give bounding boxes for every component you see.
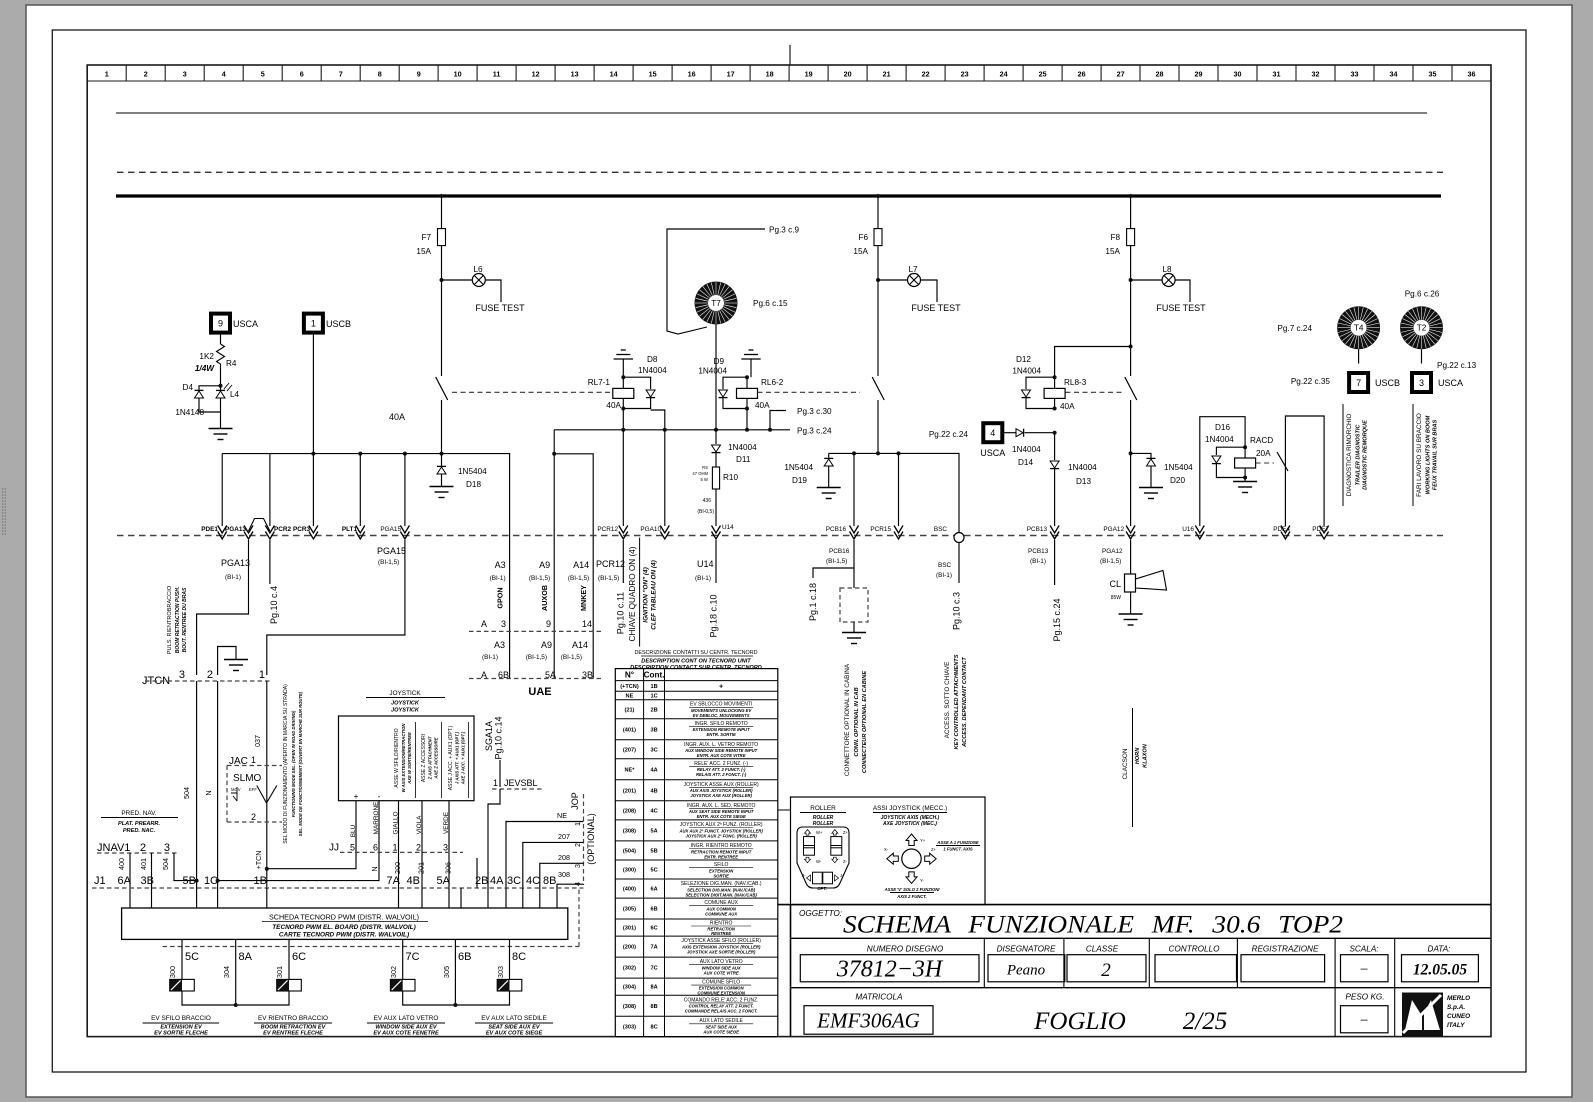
node rail-PGA15	[403, 452, 407, 456]
junction arrow	[850, 526, 859, 540]
wire switch to rail	[441, 400, 443, 454]
svg-text:EV AUX COTE SIEGE: EV AUX COTE SIEGE	[486, 1031, 543, 1037]
svg-text:4B: 4B	[650, 788, 657, 794]
svg-text:ENTR. RENTREE: ENTR. RENTREE	[704, 854, 738, 859]
svg-text:201: 201	[417, 862, 426, 874]
wire PGA10 drop	[664, 430, 666, 526]
svg-text:MNKEY: MNKEY	[579, 585, 588, 611]
svg-text:UAE: UAE	[528, 686, 551, 698]
svg-text:J+: J+	[840, 873, 845, 878]
svg-text:5B: 5B	[650, 848, 657, 854]
svg-text:(200): (200)	[623, 945, 636, 951]
svg-text:303: 303	[496, 966, 505, 978]
lamp L6	[442, 279, 473, 281]
svg-text:EV RIENTRO BRACCIO: EV RIENTRO BRACCIO	[258, 1015, 328, 1022]
node rail-USCB	[311, 452, 315, 456]
svg-text:2B: 2B	[475, 875, 488, 887]
svg-text:3C: 3C	[507, 875, 521, 887]
svg-text:3: 3	[183, 70, 187, 79]
svg-text:PGA12: PGA12	[1103, 526, 1124, 533]
svg-text:2: 2	[251, 812, 256, 822]
svg-text:(401): (401)	[623, 727, 636, 733]
svg-text:RL6-2: RL6-2	[761, 378, 784, 387]
svg-text:MARRONE: MARRONE	[373, 802, 380, 835]
svg-text:8A: 8A	[650, 985, 657, 991]
svg-text:DIAGNOSTIC REMORQUE: DIAGNOSTIC REMORQUE	[1363, 420, 1369, 490]
svg-text:1: 1	[105, 70, 109, 79]
svg-text:RELAIS ATT. 2 FONCT. (-): RELAIS ATT. 2 FONCT. (-)	[696, 772, 747, 777]
svg-text:5C: 5C	[185, 951, 199, 963]
svg-text:(+TCN): (+TCN)	[620, 684, 639, 690]
svg-text:SCHEDA TECNORD PWM (DISTR. WAL: SCHEDA TECNORD PWM (DISTR. WALVOIL)	[269, 913, 419, 922]
svg-text:SORTIE: SORTIE	[713, 873, 729, 878]
svg-text:1N4004: 1N4004	[698, 367, 727, 376]
svg-text:PGA13: PGA13	[221, 558, 250, 568]
svg-text:401: 401	[139, 858, 148, 870]
wire F8 to lamp	[1130, 246, 1132, 280]
svg-text:A3: A3	[495, 560, 506, 570]
svg-text:7C: 7C	[406, 951, 420, 963]
box disegnatore	[988, 955, 1065, 982]
svg-text:RACD: RACD	[1250, 436, 1273, 445]
svg-text:A9: A9	[539, 560, 550, 570]
wire USCB drop	[312, 333, 314, 526]
connector USCA pin4	[983, 423, 1002, 442]
wire switch to rail D	[1130, 400, 1132, 453]
svg-text:(BI-1): (BI-1)	[1030, 558, 1046, 565]
svg-text:26: 26	[1078, 70, 1086, 79]
ruler strip 1-36	[87, 65, 1491, 81]
svg-text:PGA12: PGA12	[1102, 548, 1123, 555]
svg-text:(304): (304)	[623, 985, 636, 991]
svg-text:(400): (400)	[623, 887, 636, 893]
svg-text:ASSE Z ACCESSORI: ASSE Z ACCESSORI	[421, 734, 427, 782]
connector JOP (optional)	[583, 794, 585, 885]
wires J1 into board	[196, 888, 198, 908]
svg-text:DIAGNOSTICA RIMORCHIO: DIAGNOSTICA RIMORCHIO	[1346, 414, 1353, 497]
svg-text:CL: CL	[1109, 579, 1121, 589]
ground-up RL7-1	[621, 349, 626, 351]
svg-text:FARI LAVORO SU BRACCIO: FARI LAVORO SU BRACCIO	[1416, 413, 1423, 497]
junction arrow	[400, 526, 409, 540]
junction arrow	[660, 526, 669, 540]
wire JTCN3 to J1 5B	[196, 681, 198, 888]
svg-text:(BI-1,5): (BI-1,5)	[1100, 558, 1121, 565]
svg-text:40A: 40A	[1060, 402, 1075, 411]
svg-text:2B: 2B	[650, 707, 657, 713]
svg-text:304: 304	[222, 966, 231, 978]
diode D20	[1147, 459, 1156, 466]
svg-text:HORN: HORN	[1135, 747, 1141, 764]
led L4	[220, 386, 222, 390]
svg-text:BLU: BLU	[350, 824, 357, 837]
svg-text:(BI-0,5): (BI-0,5)	[697, 509, 714, 515]
switch RL6-2 contact	[872, 377, 884, 400]
wire 400	[129, 853, 131, 908]
svg-text:GPON: GPON	[496, 587, 505, 608]
svg-text:308: 308	[558, 870, 570, 879]
svg-text:(201): (201)	[623, 788, 636, 794]
wire F8 drop	[1130, 196, 1132, 229]
wire main dashed rail	[117, 535, 1443, 537]
junction arrow	[244, 526, 253, 540]
solenoid valve EV	[390, 979, 415, 991]
svg-text:(504): (504)	[623, 848, 636, 854]
svg-text:40A: 40A	[389, 412, 405, 422]
wire PCR2 drop	[269, 454, 271, 526]
node railB-RL6	[745, 428, 749, 432]
svg-text:14: 14	[582, 619, 592, 629]
wire rail D	[1131, 453, 1151, 458]
svg-text:+: +	[719, 681, 723, 690]
svg-text:8: 8	[378, 70, 382, 79]
svg-text:1: 1	[251, 755, 256, 765]
svg-text:JJ: JJ	[329, 843, 339, 854]
svg-text:6: 6	[300, 70, 304, 79]
diode D14	[1002, 432, 1016, 434]
svg-text:30: 30	[1234, 70, 1242, 79]
wire D4/L4 bottom	[199, 398, 221, 412]
diode D12 loop	[1026, 377, 1055, 389]
svg-text:JOYSTICK: JOYSTICK	[391, 701, 420, 707]
wire 401	[151, 853, 153, 908]
svg-text:PCR12: PCR12	[597, 526, 618, 533]
svg-text:200: 200	[393, 862, 402, 874]
svg-text:CLEF TABLEAU ON (4): CLEF TABLEAU ON (4)	[651, 560, 658, 629]
svg-text:INGR. RIENTRO REMOTO: INGR. RIENTRO REMOTO	[691, 843, 752, 849]
svg-text:Y+: Y+	[920, 838, 926, 843]
svg-text:COMUNE AUX: COMUNE AUX	[704, 900, 738, 906]
svg-text:USCA: USCA	[1438, 378, 1463, 388]
svg-text:Pg.10 c.3: Pg.10 c.3	[952, 592, 962, 630]
svg-text:VIOLA: VIOLA	[416, 815, 423, 835]
diode D9 loop	[723, 377, 747, 389]
wire U16 branch	[1200, 417, 1245, 526]
svg-text:F7: F7	[421, 233, 431, 242]
svg-text:PDE1: PDE1	[201, 526, 218, 533]
svg-text:PRED. NAV.: PRED. NAV.	[121, 810, 156, 817]
svg-text:ROLLER: ROLLER	[810, 805, 836, 812]
svg-text:15: 15	[649, 70, 657, 79]
node railC-F6	[876, 451, 880, 455]
svg-text:(303): (303)	[623, 1024, 636, 1030]
svg-text:(301): (301)	[623, 926, 636, 932]
roller device	[797, 827, 849, 888]
wire 1B drop	[266, 869, 268, 888]
svg-text:REGISTRAZIONE: REGISTRAZIONE	[1252, 945, 1319, 954]
svg-text:Pg.7 c.24: Pg.7 c.24	[1277, 324, 1312, 333]
svg-text:AUX LATO SEDILE: AUX LATO SEDILE	[699, 1018, 743, 1024]
wire JTCN2 to J1 1C	[217, 681, 219, 888]
svg-text:TRAILER DIAGNOSTIC: TRAILER DIAGNOSTIC	[1356, 424, 1362, 486]
svg-text:USCB: USCB	[326, 319, 351, 329]
svg-text:36: 36	[1468, 70, 1476, 79]
svg-text:JOP: JOP	[570, 792, 580, 810]
wire PGA15 drop	[404, 454, 406, 526]
svg-text:SFILO: SFILO	[714, 862, 729, 868]
svg-text:USCA: USCA	[233, 319, 258, 329]
svg-text:2: 2	[207, 669, 213, 681]
svg-text:1N4004: 1N4004	[1012, 445, 1041, 454]
svg-text:1B: 1B	[254, 875, 267, 887]
svg-text:L6: L6	[473, 265, 483, 274]
svg-text:1: 1	[259, 669, 265, 681]
wire Pg.3 c.9 link	[667, 229, 765, 334]
svg-text:USCB: USCB	[1375, 378, 1400, 388]
svg-text:NE: NE	[626, 694, 634, 700]
svg-text:EV SBLOCCO MOVIMENTI: EV SBLOCCO MOVIMENTI	[690, 702, 752, 708]
svg-text:5: 5	[261, 70, 265, 79]
svg-text:D19: D19	[792, 476, 807, 485]
svg-text:2: 2	[144, 70, 148, 79]
svg-text:RELE' ACC. 2 FUNZ. (-): RELE' ACC. 2 FUNZ. (-)	[694, 761, 748, 767]
wire D13 to PCB13	[1054, 469, 1056, 526]
svg-text:COMMUNE EXTENSION: COMMUNE EXTENSION	[697, 990, 745, 995]
junction arrow	[1050, 526, 1059, 540]
svg-text:D16: D16	[1215, 423, 1230, 432]
solenoid valve EV	[497, 979, 522, 991]
svg-text:CONN. OPTIONAL IN CAB: CONN. OPTIONAL IN CAB	[854, 687, 860, 756]
svg-text:1N5404: 1N5404	[1164, 463, 1193, 472]
svg-text:1: 1	[311, 319, 316, 329]
transformer T4	[1337, 306, 1380, 349]
svg-text:8B: 8B	[650, 1004, 657, 1010]
svg-text:PCB16: PCB16	[829, 548, 850, 555]
wire UAE col3	[554, 454, 593, 679]
svg-text:EMF306AG: EMF306AG	[816, 1009, 920, 1033]
svg-text:BSC: BSC	[934, 526, 948, 533]
svg-text:1K2: 1K2	[199, 352, 214, 361]
wire PGA13 to JTCN3	[197, 540, 249, 675]
svg-text:3: 3	[164, 842, 170, 854]
wire GIALLO 200	[398, 801, 400, 888]
svg-text:D12: D12	[1016, 355, 1031, 364]
svg-text:U16: U16	[1182, 526, 1194, 533]
wire 305	[454, 939, 456, 1005]
svg-text:1N5404: 1N5404	[784, 463, 813, 472]
wire 300	[181, 939, 183, 979]
connector optional dashed box	[840, 588, 868, 622]
mech link dashed RL8-3	[1066, 391, 1123, 393]
junction arrow	[265, 526, 274, 540]
svg-text:(OPTIONAL): (OPTIONAL)	[586, 813, 596, 865]
wire 2B drop	[476, 858, 478, 888]
svg-text:3B: 3B	[141, 875, 154, 887]
svg-text:1N5404: 1N5404	[458, 467, 487, 476]
svg-text:(302): (302)	[623, 966, 636, 972]
box scala	[1341, 955, 1389, 982]
node D14-RL8	[1053, 431, 1057, 435]
wire: dashed top rail	[117, 171, 1443, 173]
svg-text:EV AUX LATO SEDILE: EV AUX LATO SEDILE	[481, 1015, 546, 1022]
svg-text:3: 3	[179, 669, 185, 681]
box matricola	[804, 1006, 933, 1034]
svg-text:ASSE 'V' SOLO 2 FUNZIONI: ASSE 'V' SOLO 2 FUNZIONI	[884, 887, 941, 892]
svg-text:A14: A14	[573, 560, 589, 570]
svg-text:CARTE TECNORD PWM (DISTR. WALV: CARTE TECNORD PWM (DISTR. WALVOIL)	[279, 932, 409, 939]
svg-text:−: −	[1359, 962, 1369, 978]
title block	[778, 904, 1491, 906]
svg-text:AUXOB: AUXOB	[540, 585, 549, 611]
logo merlo	[1402, 993, 1443, 1037]
relay coil RL6-2	[745, 375, 749, 379]
svg-text:16: 16	[688, 70, 696, 79]
svg-text:PGA13: PGA13	[225, 526, 246, 533]
crossover bridge PGA13-PCR2	[249, 519, 270, 532]
svg-text:AXE J ACC. + AUX1 (OPT.): AXE J ACC. + AUX1 (OPT.)	[461, 731, 466, 785]
svg-text:CUNEO: CUNEO	[1447, 1013, 1470, 1020]
svg-text:AXE W SORTIE/RENTREE: AXE W SORTIE/RENTREE	[407, 732, 412, 785]
node R4-D4	[220, 368, 222, 386]
svg-text:SEL MODO DI FUNZIONAMENTO (APE: SEL MODO DI FUNZIONAMENTO (APERTO IN MAR…	[283, 684, 289, 844]
box data	[1402, 955, 1479, 982]
wire T2 to square	[1421, 349, 1423, 363]
transformer T7	[695, 282, 738, 325]
svg-text:PCR12: PCR12	[596, 559, 625, 569]
label col diagnostica rimorchio	[1342, 404, 1344, 506]
box classe	[1067, 955, 1146, 982]
switch SLMO	[231, 787, 237, 801]
svg-text:CONNECTEUR OPTIONAL EN CABINE: CONNECTEUR OPTIONAL EN CABINE	[862, 671, 868, 773]
svg-text:3C: 3C	[650, 747, 657, 753]
svg-text:AUX COTE SIEGE: AUX COTE SIEGE	[702, 1030, 739, 1035]
svg-text:SLMO: SLMO	[233, 773, 262, 784]
svg-text:PDE4: PDE4	[1273, 526, 1290, 533]
svg-text:EV SORTIE FLECHE: EV SORTIE FLECHE	[154, 1031, 208, 1037]
wire: main supply bus	[116, 194, 1441, 197]
svg-text:WORKING LIGHTS ON BOOM: WORKING LIGHTS ON BOOM	[1426, 415, 1432, 494]
svg-text:1C: 1C	[650, 694, 657, 700]
svg-text:29: 29	[1195, 70, 1203, 79]
svg-text:IGNITION "ON" (4): IGNITION "ON" (4)	[643, 567, 650, 622]
wire: thin top rail	[116, 112, 1427, 114]
junction arrow	[356, 526, 365, 540]
svg-text:33: 33	[1351, 70, 1359, 79]
svg-text:15A: 15A	[416, 247, 431, 256]
joystick cross	[902, 849, 921, 868]
node railB-PGA10	[663, 428, 667, 432]
diode D19	[828, 453, 830, 458]
svg-text:SELECTION DIGIT.MAN. (NAV./CAB: SELECTION DIGIT.MAN. (NAV./CAB)	[685, 892, 757, 897]
switch 40A (RL7-1 contact)	[436, 377, 448, 400]
riser Pg.3 c.30	[768, 428, 772, 432]
solenoid valve EV	[277, 979, 302, 991]
svg-text:D18: D18	[466, 480, 481, 489]
node railC-PCR15	[897, 451, 901, 455]
transformer T2	[1400, 306, 1443, 349]
svg-text:1N4004: 1N4004	[1205, 435, 1234, 444]
svg-text:FOGLIO: FOGLIO	[1033, 1008, 1126, 1035]
wire PDE1 drop	[221, 454, 223, 526]
svg-text:28: 28	[1156, 70, 1164, 79]
svg-text:JEVSBL: JEVSBL	[504, 778, 538, 788]
svg-text:Pg.10 c.14: Pg.10 c.14	[494, 716, 504, 759]
svg-text:208: 208	[558, 853, 570, 862]
svg-text:DISEGNATORE: DISEGNATORE	[997, 945, 1056, 954]
svg-text:3: 3	[573, 864, 582, 868]
svg-text:5B: 5B	[183, 875, 196, 887]
svg-text:INGR. AUX. L. VETRO REMOTO: INGR. AUX. L. VETRO REMOTO	[684, 742, 758, 748]
svg-text:EV AUX LATO VETRO: EV AUX LATO VETRO	[374, 1015, 439, 1022]
svg-text:SCALA:: SCALA:	[1349, 945, 1378, 954]
ground CL	[1130, 592, 1132, 614]
svg-text:D13: D13	[1076, 477, 1091, 486]
svg-text:9: 9	[218, 319, 223, 329]
svg-text:N: N	[370, 866, 379, 871]
svg-text:Pg.10 c.11: Pg.10 c.11	[616, 592, 626, 634]
svg-text:12: 12	[532, 70, 540, 79]
svg-text:DESCRIPTION CONT ON TECNORD UN: DESCRIPTION CONT ON TECNORD UNIT	[641, 659, 751, 665]
label clacson	[1132, 708, 1134, 827]
svg-text:L8: L8	[1162, 265, 1172, 274]
svg-text:40A: 40A	[606, 401, 621, 410]
svg-text:L4: L4	[230, 390, 240, 399]
svg-text:22: 22	[922, 70, 930, 79]
svg-text:FUSE TEST: FUSE TEST	[1156, 303, 1206, 313]
stub Pg.1 c.18	[813, 568, 854, 578]
svg-text:DESCRIZIONE CONTATTI SU CENTR.: DESCRIZIONE CONTATTI SU CENTR. TECNORD	[634, 650, 757, 656]
svg-text:D9: D9	[714, 357, 725, 366]
svg-text:1B: 1B	[650, 684, 657, 690]
wire 304	[235, 939, 237, 1005]
wire R10 to U14	[715, 489, 717, 526]
svg-text:ENTR. AUX COTE VITRE: ENTR. AUX COTE VITRE	[697, 753, 746, 758]
wire valve bus left	[182, 991, 289, 1005]
svg-text:EV AUX COTE FENETRE: EV AUX COTE FENETRE	[373, 1031, 439, 1037]
wire JEVSBL to 4A	[488, 789, 500, 888]
svg-text:S.p.A.: S.p.A.	[1447, 1004, 1465, 1011]
svg-text:+: +	[354, 792, 359, 801]
svg-text:J AXIS ATT. + AUX1 (OPT.): J AXIS ATT. + AUX1 (OPT.)	[455, 731, 460, 784]
svg-text:Z AXIS ATTACHMENT: Z AXIS ATTACHMENT	[428, 736, 433, 780]
svg-text:SCHEMA FUNZIONALE MF. 30.6 TOP: SCHEMA FUNZIONALE MF. 30.6 TOP2	[843, 912, 1343, 939]
node bus-F8	[1129, 194, 1133, 198]
wire fuse to lamp node	[441, 246, 443, 280]
wire PCR12 drop	[622, 430, 624, 526]
wire JTCN1 through JAC	[266, 681, 268, 869]
wire F6 to switch	[877, 280, 879, 376]
svg-text:T2: T2	[1417, 324, 1427, 333]
svg-text:Pg.18 c.10: Pg.18 c.10	[709, 594, 719, 637]
ground D19	[828, 466, 830, 487]
svg-text:17: 17	[727, 70, 735, 79]
svg-text:JOYSTICK AUX 2ª FUNZ. (ROLLER): JOYSTICK AUX 2ª FUNZ. (ROLLER)	[680, 822, 763, 828]
fuse F8	[1127, 229, 1135, 246]
ground PCB16	[853, 622, 855, 632]
svg-text:ENTR. SORTIE: ENTR. SORTIE	[707, 732, 736, 737]
svg-text:Pg.3 c.9: Pg.3 c.9	[769, 226, 799, 235]
svg-text:6C: 6C	[650, 926, 657, 932]
svg-text:6: 6	[373, 843, 378, 853]
svg-text:037: 037	[253, 735, 262, 747]
node bus-F6	[876, 194, 880, 198]
svg-text:1/4W: 1/4W	[195, 364, 215, 373]
svg-text:Pg.1 c.18: Pg.1 c.18	[808, 583, 818, 621]
svg-text:D4: D4	[183, 383, 194, 392]
svg-text:27: 27	[1117, 70, 1125, 79]
svg-text:1N4004: 1N4004	[638, 366, 667, 375]
svg-text:KLAXON: KLAXON	[1143, 743, 1149, 768]
svg-text:FUSE TEST: FUSE TEST	[911, 303, 961, 313]
diode D18	[441, 454, 443, 466]
svg-text:OGGETTO:: OGGETTO:	[799, 909, 842, 918]
svg-text:Y-: Y-	[920, 878, 924, 883]
svg-text:2: 2	[573, 843, 582, 847]
mech link dashed RACD	[1256, 462, 1274, 464]
svg-text:(BI-1): (BI-1)	[936, 572, 952, 579]
svg-text:2/25: 2/25	[1183, 1008, 1227, 1035]
svg-text:9: 9	[546, 619, 551, 629]
